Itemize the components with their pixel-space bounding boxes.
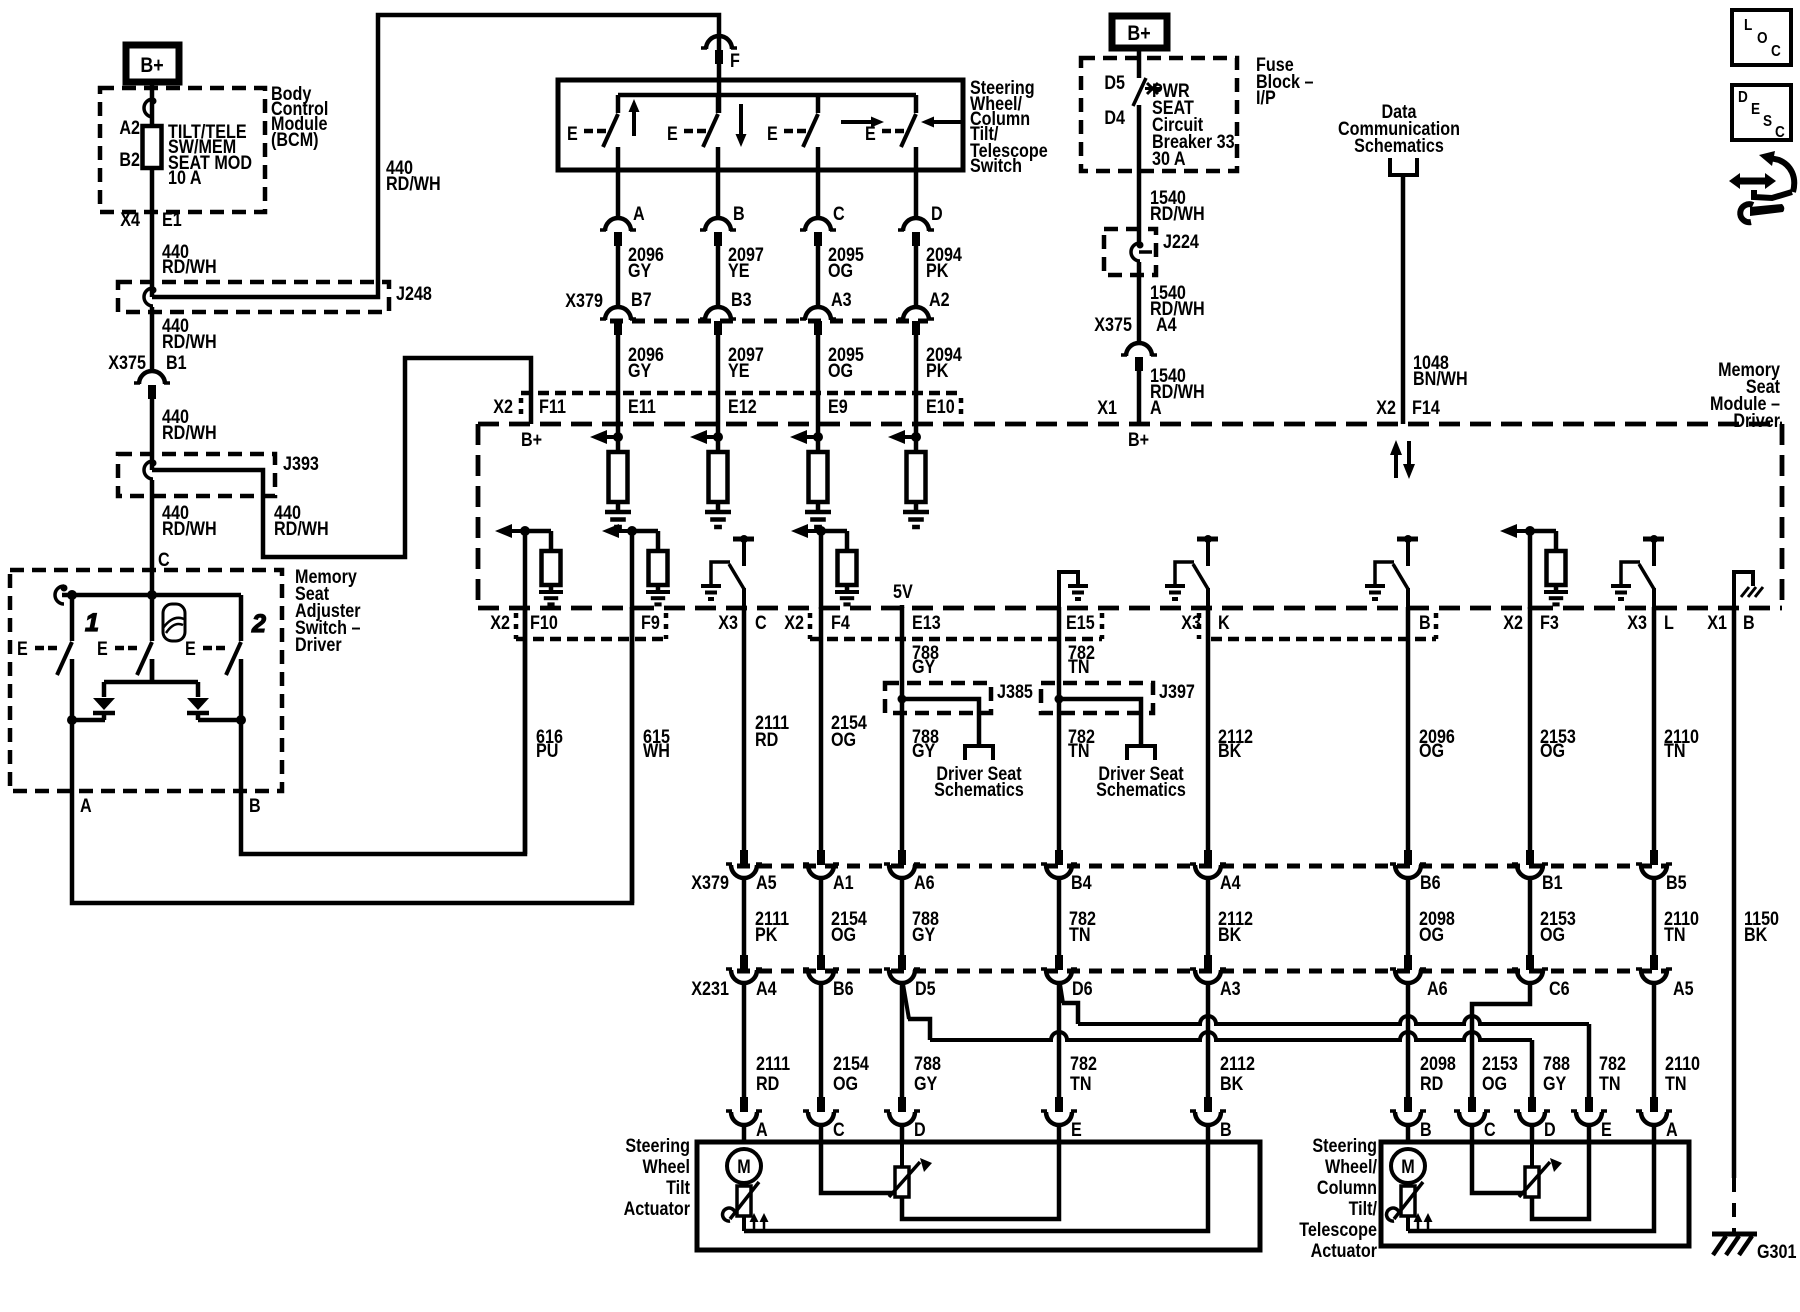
- switch 1 output to box edge: [70, 720, 75, 791]
- wire X379 to X231: [819, 877, 824, 956]
- svg-text:B4: B4: [1071, 872, 1092, 894]
- wire 788 GY (E13): [900, 607, 905, 851]
- svg-text:Driver: Driver: [295, 634, 342, 656]
- connector tilt actuator E: [1055, 1097, 1063, 1112]
- svg-text:C: C: [1771, 43, 1781, 60]
- svg-text:X4: X4: [120, 209, 140, 231]
- svg-text:E: E: [1751, 101, 1760, 118]
- wire 2154 OG to tilt actuator C: [819, 982, 824, 1098]
- connector bracket X2 (module top): [521, 391, 961, 396]
- svg-text:BK: BK: [1220, 1073, 1244, 1095]
- svg-text:X379: X379: [565, 290, 603, 312]
- off-page bracket (driver seat 2): [1127, 746, 1155, 760]
- svg-text:RD/WH: RD/WH: [162, 422, 217, 444]
- splice J385 dashed box: [885, 683, 991, 713]
- wire into tilt actuator D: [900, 1124, 905, 1143]
- svg-text:A: A: [80, 795, 92, 817]
- wire C to wiper (tilt): [821, 1143, 895, 1193]
- svg-text:D: D: [931, 203, 943, 225]
- svg-text:E15: E15: [1066, 612, 1095, 634]
- svg-text:TN: TN: [1068, 740, 1090, 762]
- wire J248 branch to top: [152, 15, 719, 297]
- wire into telescope actuator D: [1530, 1124, 1535, 1143]
- svg-text:E12: E12: [728, 396, 757, 418]
- switch tilt down: [716, 95, 721, 113]
- wire fuse to J248: [150, 168, 155, 297]
- output network F3 (arrow, resistor, ground): [1500, 524, 1517, 538]
- wire 2153 OG (F3): [1528, 607, 1533, 851]
- wire motor to A (telescope): [1408, 1143, 1654, 1231]
- connector X375 B1: [139, 371, 165, 384]
- wire 782 TN to tilt actuator E: [1057, 982, 1062, 1098]
- svg-text:RD/WH: RD/WH: [274, 518, 329, 540]
- svg-text:A: A: [633, 203, 645, 225]
- svg-text:RD/WH: RD/WH: [162, 256, 217, 278]
- connector X231 B6: [817, 955, 825, 970]
- connector row X379 (upper): [610, 319, 928, 324]
- arrow right (telescope out): [871, 117, 884, 128]
- Steering Wheel switch box: [558, 80, 963, 170]
- wire 1150 BK dashed to ground: [1732, 1178, 1736, 1233]
- wire X379 to X231: [1528, 877, 1533, 956]
- connector A below switch: [605, 218, 631, 231]
- connector telescope actuator B: [1404, 1097, 1412, 1112]
- svg-text:A5: A5: [1673, 978, 1694, 1000]
- svg-text:TN: TN: [1664, 924, 1686, 946]
- diode D1: [93, 698, 115, 710]
- svg-text:OG: OG: [1540, 740, 1565, 762]
- wire switch to connector B: [716, 170, 721, 218]
- svg-text:PK: PK: [926, 360, 949, 382]
- svg-text:Schematics: Schematics: [1096, 779, 1186, 801]
- svg-text:A4: A4: [1220, 872, 1241, 894]
- svg-text:F11: F11: [539, 396, 566, 418]
- switch telescope out: [816, 95, 821, 113]
- svg-text:X2: X2: [784, 612, 804, 634]
- connector X379 B6: [1404, 850, 1412, 865]
- svg-text:2154: 2154: [833, 1053, 869, 1075]
- svg-text:S: S: [1763, 113, 1772, 130]
- svg-text:D: D: [1544, 1119, 1556, 1141]
- wire 5V E13 start: [900, 605, 905, 608]
- svg-text:Wheel: Wheel: [642, 1156, 690, 1178]
- connector bracket (bottom left group): [516, 637, 666, 642]
- position sensor potentiometer (telescope): [1530, 1143, 1534, 1167]
- splice J248 dashed box: [118, 282, 389, 312]
- wire J393 to adjuster switch: [150, 480, 155, 595]
- svg-text:782: 782: [1070, 1053, 1097, 1075]
- fuse TILT/TELE SW/MEM SEAT MOD 10A: [143, 126, 162, 168]
- wire J397 branch: [1059, 699, 1141, 746]
- wire 2110 TN to telescope actuator A: [1652, 982, 1657, 1098]
- svg-text:E1: E1: [162, 209, 182, 231]
- svg-text:(BCM): (BCM): [271, 129, 319, 151]
- off-page bracket: [1390, 158, 1417, 175]
- svg-text:J224: J224: [1163, 231, 1199, 253]
- svg-text:X1: X1: [1707, 612, 1727, 634]
- svg-text:E13: E13: [912, 612, 941, 634]
- svg-text:C: C: [833, 1119, 845, 1141]
- svg-text:X3: X3: [1627, 612, 1647, 634]
- navigation icon (arrows and wrench): [1770, 158, 1794, 192]
- connector X379 B5: [1650, 850, 1658, 865]
- wire 2154 OG (F4): [819, 607, 824, 851]
- svg-text:OG: OG: [831, 924, 856, 946]
- svg-text:C: C: [158, 549, 170, 571]
- svg-text:E11: E11: [628, 396, 656, 418]
- ground G301: [1712, 1232, 1757, 1237]
- wire 2098 RD to telescope actuator B: [1406, 982, 1411, 1098]
- svg-text:BK: BK: [1744, 924, 1768, 946]
- connector tilt actuator D: [898, 1097, 906, 1112]
- svg-text:GY: GY: [912, 656, 936, 678]
- motor M (telescope actuator): [1391, 1149, 1425, 1183]
- svg-text:OG: OG: [828, 360, 853, 382]
- svg-text:B: B: [1420, 1119, 1432, 1141]
- connector X379 B3: [705, 307, 731, 320]
- svg-text:G301: G301: [1757, 1241, 1797, 1263]
- svg-text:A6: A6: [1427, 978, 1448, 1000]
- battery feed B+ terminal box (fuse block): [1112, 16, 1167, 48]
- splice hook J393: [144, 461, 153, 479]
- svg-text:J393: J393: [283, 453, 319, 475]
- svg-text:B+: B+: [140, 54, 163, 78]
- wire switch to connector C: [816, 170, 821, 218]
- wire X379 to module: [616, 334, 621, 424]
- wire X375 to module X1 A: [1137, 370, 1142, 424]
- svg-text:PK: PK: [926, 260, 949, 282]
- connector tilt actuator A: [740, 1097, 748, 1112]
- off-page bracket (driver seat 1): [965, 746, 993, 760]
- input network E9 (arrow, resistor, ground): [816, 424, 821, 452]
- input network E10 (arrow, resistor, ground): [914, 424, 919, 452]
- internal switch at pin L: [1643, 537, 1664, 542]
- wire B+ to breaker: [1137, 48, 1142, 78]
- svg-text:M: M: [737, 1156, 750, 1178]
- svg-text:E10: E10: [926, 396, 955, 418]
- svg-text:OG: OG: [831, 729, 856, 751]
- E15 internal ground: [1059, 572, 1078, 607]
- wire 2096 OG (B): [1406, 607, 1411, 851]
- X1 B internal chassis ground: [1734, 572, 1753, 607]
- svg-text:GY: GY: [912, 740, 936, 762]
- svg-text:B1: B1: [1542, 872, 1563, 894]
- svg-text:TN: TN: [1665, 1073, 1687, 1095]
- wire X379 to X231: [1057, 877, 1062, 956]
- svg-text:X2: X2: [490, 612, 510, 634]
- svg-text:BK: BK: [1218, 740, 1242, 762]
- wire D5 crossover to telescope actuator D: [903, 984, 909, 1019]
- svg-text:5V: 5V: [893, 581, 913, 603]
- wire diode D1 to A leg: [72, 718, 105, 723]
- svg-text:E: E: [1601, 1119, 1612, 1141]
- arrow up (tilt up): [629, 99, 640, 112]
- wire X379 to module: [816, 334, 821, 424]
- wire 2111 RD to tilt actuator A: [742, 982, 747, 1098]
- wire J248 to X375: [150, 307, 155, 371]
- wire A to module F9 run: [72, 607, 632, 903]
- svg-text:TN: TN: [1664, 740, 1686, 762]
- connector B below switch: [705, 218, 731, 231]
- connector X231 A3: [1204, 955, 1212, 970]
- connector F: [706, 36, 732, 49]
- svg-text:X375: X375: [1094, 314, 1132, 336]
- svg-text:E: E: [185, 638, 196, 660]
- wire J224 to X375: [1137, 262, 1142, 343]
- svg-text:A: A: [1150, 397, 1162, 419]
- svg-text:B6: B6: [1420, 872, 1441, 894]
- arrow down (tilt down): [736, 134, 747, 147]
- connector X379 B7: [605, 307, 631, 320]
- wire X379 to X231: [1652, 877, 1657, 956]
- svg-text:B6: B6: [833, 978, 854, 1000]
- svg-text:788: 788: [914, 1053, 941, 1075]
- svg-text:B2: B2: [119, 149, 140, 171]
- svg-text:D: D: [914, 1119, 926, 1141]
- svg-text:B: B: [249, 795, 261, 817]
- wire B+ to BCM fuse: [150, 82, 155, 126]
- battery feed B+ terminal box (BCM): [126, 45, 179, 82]
- svg-text:A3: A3: [831, 289, 852, 311]
- node J397: [1055, 695, 1064, 704]
- svg-text:C6: C6: [1549, 978, 1570, 1000]
- svg-text:GY: GY: [914, 1073, 938, 1095]
- svg-text:RD/WH: RD/WH: [162, 518, 217, 540]
- switch 2 (set): [150, 595, 155, 641]
- svg-text:RD/WH: RD/WH: [1150, 203, 1205, 225]
- connector X379 A1: [817, 850, 825, 865]
- LOC reference box: [1732, 10, 1791, 65]
- svg-text:B+: B+: [1128, 429, 1149, 451]
- wire 2112 BK to tilt actuator B: [1206, 982, 1211, 1098]
- svg-text:Schematics: Schematics: [1354, 135, 1444, 157]
- position sensor potentiometer (tilt): [900, 1143, 904, 1167]
- DESC reference box: [1732, 85, 1791, 140]
- svg-text:X2: X2: [493, 396, 513, 418]
- connector X375 A4: [1126, 343, 1152, 356]
- wire 2110 TN (L): [1652, 607, 1657, 851]
- adjuster switch bus wire: [62, 593, 241, 598]
- svg-text:Schematics: Schematics: [934, 779, 1024, 801]
- internal switch at pin C: [733, 537, 754, 542]
- wire 2111 RD (C): [742, 607, 747, 851]
- Memory Seat Module dashed border: [478, 422, 1782, 427]
- connector X379 B1: [1526, 850, 1534, 865]
- svg-text:E: E: [1071, 1119, 1082, 1141]
- svg-text:D5: D5: [1104, 72, 1125, 94]
- svg-text:A4: A4: [756, 978, 777, 1000]
- switch telescope in: [914, 95, 919, 113]
- wire 782 TN (E15): [1057, 607, 1062, 851]
- svg-text:2112: 2112: [1220, 1053, 1255, 1075]
- svg-text:B: B: [1419, 612, 1431, 634]
- svg-text:X375: X375: [108, 352, 146, 374]
- wire into tilt actuator B: [1206, 1124, 1211, 1143]
- wire X379 to X231: [742, 877, 747, 956]
- svg-text:E9: E9: [828, 396, 848, 418]
- svg-text:E: E: [767, 123, 778, 145]
- svg-text:Actuator: Actuator: [1311, 1240, 1377, 1262]
- svg-text:X379: X379: [691, 872, 729, 894]
- svg-text:GY: GY: [628, 260, 652, 282]
- wire X379 to X231: [1206, 877, 1211, 956]
- svg-text:PU: PU: [536, 740, 558, 762]
- connector X231 A4: [740, 955, 748, 970]
- svg-text:788: 788: [1543, 1053, 1570, 1075]
- switch internal bus: [618, 93, 916, 98]
- splice hook adjuster bus: [55, 586, 64, 604]
- svg-text:B+: B+: [521, 429, 542, 451]
- svg-text:OG: OG: [1482, 1073, 1507, 1095]
- svg-text:J248: J248: [396, 283, 432, 305]
- wire J385 branch: [902, 699, 979, 746]
- splice hook J248: [144, 288, 153, 306]
- switch tilt up: [616, 95, 621, 113]
- Steering Wheel/Column Tilt/Telescope Actuator box: [1381, 1142, 1689, 1246]
- svg-text:X231: X231: [691, 978, 729, 1000]
- wire X379 to module: [716, 334, 721, 424]
- svg-text:C: C: [1484, 1119, 1496, 1141]
- wire into telescope actuator E: [1587, 1124, 1592, 1143]
- splice J397 dashed box: [1041, 683, 1153, 713]
- svg-text:E: E: [17, 638, 28, 660]
- wire to X379 row: [816, 246, 821, 307]
- motor M (tilt actuator): [727, 1149, 761, 1183]
- svg-text:10 A: 10 A: [168, 167, 202, 189]
- svg-text:GY: GY: [628, 360, 652, 382]
- internal switch at pin B: [1397, 537, 1418, 542]
- svg-text:F9: F9: [641, 612, 660, 634]
- svg-text:B: B: [1743, 612, 1755, 634]
- svg-text:A5: A5: [756, 872, 777, 894]
- svg-text:Switch: Switch: [970, 155, 1022, 177]
- svg-text:Wheel/: Wheel/: [1325, 1156, 1377, 1178]
- svg-text:J397: J397: [1159, 681, 1195, 703]
- svg-text:F4: F4: [831, 612, 850, 634]
- wire X379 to X231: [900, 877, 905, 956]
- svg-text:Column: Column: [1317, 1177, 1377, 1199]
- svg-text:RD: RD: [755, 729, 778, 751]
- wire to X379 row: [914, 246, 919, 307]
- svg-text:YE: YE: [728, 360, 750, 382]
- svg-text:OG: OG: [1419, 740, 1444, 762]
- svg-text:F: F: [730, 50, 740, 72]
- switch 3 (memory 2): [239, 595, 244, 641]
- svg-text:B5: B5: [1666, 872, 1687, 894]
- svg-text:L: L: [1664, 612, 1674, 634]
- connector tilt actuator B: [1204, 1097, 1212, 1112]
- svg-text:C: C: [833, 203, 845, 225]
- svg-text:Steering: Steering: [625, 1135, 690, 1157]
- wire J393 branch to module F11: [152, 358, 531, 557]
- wire to X379 row: [616, 246, 621, 307]
- svg-text:GY: GY: [912, 924, 936, 946]
- node J385: [898, 695, 907, 704]
- svg-text:A4: A4: [1156, 314, 1177, 336]
- svg-text:E: E: [97, 638, 108, 660]
- svg-text:Tilt/: Tilt/: [1349, 1198, 1377, 1220]
- svg-text:M: M: [1401, 1156, 1414, 1178]
- svg-text:C: C: [755, 612, 767, 634]
- svg-text:PK: PK: [755, 924, 778, 946]
- connector row X379 (lower): [737, 864, 1668, 869]
- output network F9 (arrow, resistor, ground): [602, 524, 619, 538]
- wire C to wiper (telescope): [1472, 1143, 1525, 1193]
- wire breaker to J224: [1137, 105, 1142, 242]
- node bus-sw1: [67, 590, 77, 600]
- svg-text:Telescope: Telescope: [1299, 1219, 1377, 1241]
- connector X231 A5: [1650, 955, 1658, 970]
- wire motor to B (tilt): [744, 1143, 1208, 1231]
- svg-text:X2: X2: [1376, 397, 1396, 419]
- connector X379 A6: [898, 850, 906, 865]
- svg-text:TN: TN: [1070, 1073, 1092, 1095]
- svg-text:OG: OG: [828, 260, 853, 282]
- svg-text:F14: F14: [1412, 397, 1440, 419]
- svg-text:O: O: [1757, 30, 1768, 47]
- wire 616 PU (F10): [523, 607, 528, 854]
- svg-text:X3: X3: [718, 612, 738, 634]
- svg-text:D4: D4: [1104, 107, 1125, 129]
- svg-text:J385: J385: [997, 681, 1033, 703]
- connector X231 A6: [1404, 955, 1412, 970]
- svg-text:D5: D5: [915, 978, 936, 1000]
- wire X375 to J393: [150, 398, 155, 470]
- wire 788 GY to tilt actuator D: [900, 982, 905, 1098]
- output network F4 (arrow, resistor, ground): [791, 524, 808, 538]
- svg-text:Driver: Driver: [1733, 410, 1780, 432]
- connector X379 A4: [1204, 850, 1212, 865]
- svg-text:RD/WH: RD/WH: [162, 331, 217, 353]
- svg-text:30 A: 30 A: [1152, 148, 1186, 170]
- wire data comm to module F14: [1401, 175, 1406, 424]
- svg-text:Actuator: Actuator: [624, 1198, 690, 1220]
- svg-text:2153: 2153: [1482, 1053, 1518, 1075]
- svg-text:B: B: [1220, 1119, 1232, 1141]
- svg-text:OG: OG: [1540, 924, 1565, 946]
- svg-text:E: E: [567, 123, 578, 145]
- svg-text:RD/WH: RD/WH: [386, 173, 441, 195]
- svg-text:B7: B7: [631, 289, 652, 311]
- svg-text:I/P: I/P: [1256, 87, 1276, 109]
- diode feed wire: [150, 659, 155, 682]
- svg-text:B1: B1: [166, 352, 187, 374]
- wire D6 crossover to telescope actuator E: [1060, 984, 1063, 1003]
- svg-text:BN/WH: BN/WH: [1413, 368, 1468, 390]
- svg-text:D: D: [1738, 89, 1748, 106]
- connector X379 A3: [805, 307, 831, 320]
- splice J393 dashed box: [118, 454, 275, 496]
- connector C below switch: [805, 218, 831, 231]
- wire B to module F10 run: [241, 607, 525, 854]
- wire into tilt actuator C: [819, 1124, 824, 1143]
- wire pot to E (telescope): [1532, 1143, 1589, 1219]
- svg-text:WH: WH: [643, 740, 670, 762]
- svg-text:2: 2: [251, 610, 266, 638]
- wire into telescope actuator A: [1652, 1124, 1657, 1143]
- svg-text:OG: OG: [1419, 924, 1444, 946]
- wire to X379 row: [716, 246, 721, 307]
- svg-text:B+: B+: [1127, 22, 1150, 46]
- wire into telescope actuator C: [1470, 1124, 1475, 1143]
- svg-text:1: 1: [85, 609, 99, 637]
- wire X379 to module: [914, 334, 919, 424]
- input network E12 (arrow, resistor, ground): [716, 424, 721, 452]
- wire 1150 BK (X1 B to G301): [1732, 607, 1737, 1178]
- splice hook inside BCM top: [144, 99, 153, 117]
- output network F10 (arrow, resistor, ground): [495, 524, 512, 538]
- node bus-C: [147, 590, 157, 600]
